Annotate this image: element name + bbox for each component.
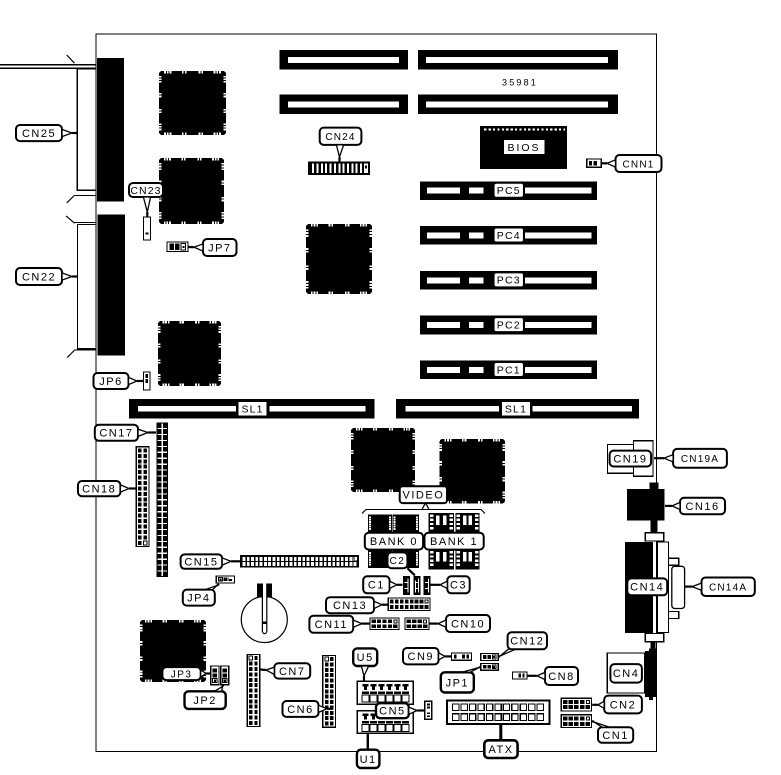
svg-text:JP3: JP3 xyxy=(171,670,193,681)
svg-text:CNN1: CNN1 xyxy=(622,159,654,170)
svg-text:BIOS: BIOS xyxy=(507,142,540,154)
svg-text:CN12: CN12 xyxy=(510,636,544,648)
svg-text:CN5: CN5 xyxy=(379,706,406,718)
svg-text:SL1: SL1 xyxy=(241,404,263,416)
svg-text:CN14: CN14 xyxy=(630,582,664,594)
svg-text:SL1: SL1 xyxy=(505,404,527,416)
svg-text:C3: C3 xyxy=(450,580,467,592)
svg-text:CN19: CN19 xyxy=(613,453,647,465)
svg-text:CN23: CN23 xyxy=(130,185,161,197)
svg-text:CN22: CN22 xyxy=(22,271,56,283)
svg-text:PC1: PC1 xyxy=(497,364,521,376)
svg-text:JP4: JP4 xyxy=(187,593,210,605)
svg-text:JP2: JP2 xyxy=(193,695,216,707)
svg-text:VIDEO: VIDEO xyxy=(403,490,445,502)
svg-text:CN25: CN25 xyxy=(22,128,56,140)
svg-text:CN15: CN15 xyxy=(184,557,218,569)
svg-text:JP7: JP7 xyxy=(208,242,231,254)
svg-text:PC4: PC4 xyxy=(497,230,521,242)
svg-text:CN8: CN8 xyxy=(548,671,575,683)
svg-text:U5: U5 xyxy=(357,652,374,664)
svg-text:C1: C1 xyxy=(368,580,385,592)
svg-text:CN24: CN24 xyxy=(325,132,355,143)
svg-text:CN6: CN6 xyxy=(287,704,314,716)
svg-text:CN16: CN16 xyxy=(685,501,719,513)
svg-text:CN7: CN7 xyxy=(279,666,306,678)
svg-text:PC3: PC3 xyxy=(497,275,521,287)
svg-text:CN9: CN9 xyxy=(408,651,435,663)
svg-text:C2: C2 xyxy=(390,556,406,567)
svg-text:CN10: CN10 xyxy=(451,618,485,630)
svg-text:CN11: CN11 xyxy=(315,619,348,631)
svg-text:CN18: CN18 xyxy=(82,484,116,496)
svg-text:BANK 0: BANK 0 xyxy=(370,536,418,548)
svg-text:PC5: PC5 xyxy=(497,185,521,197)
svg-text:U1: U1 xyxy=(360,754,377,766)
svg-text:JP1: JP1 xyxy=(446,677,469,689)
svg-text:ATX: ATX xyxy=(488,744,513,756)
svg-text:35981: 35981 xyxy=(502,78,538,88)
svg-text:JP6: JP6 xyxy=(99,376,122,388)
svg-text:BANK 1: BANK 1 xyxy=(430,536,478,548)
svg-text:CN13: CN13 xyxy=(333,600,367,612)
svg-text:CN17: CN17 xyxy=(99,428,133,440)
svg-text:CN4: CN4 xyxy=(613,668,640,680)
svg-text:CN14A: CN14A xyxy=(709,583,747,594)
svg-text:CN19A: CN19A xyxy=(681,454,719,465)
svg-text:CN2: CN2 xyxy=(610,699,637,711)
svg-text:CN1: CN1 xyxy=(602,730,629,742)
svg-text:PC2: PC2 xyxy=(497,320,521,332)
